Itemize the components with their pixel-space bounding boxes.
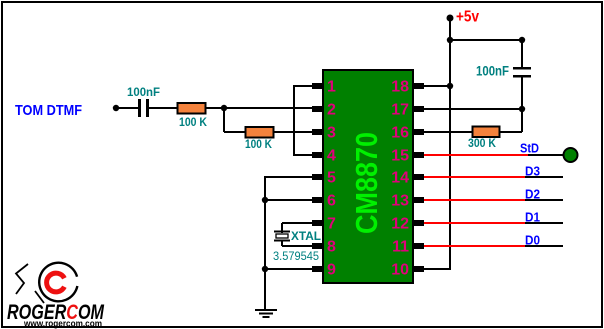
svg-text:D3: D3: [525, 164, 540, 179]
svg-text:9: 9: [327, 262, 336, 279]
svg-text:100nF: 100nF: [127, 85, 160, 99]
svg-text:13: 13: [391, 193, 409, 210]
svg-text:CM8870: CM8870: [349, 132, 384, 234]
svg-text:11: 11: [392, 239, 409, 256]
svg-text:+5v: +5v: [456, 9, 479, 26]
svg-text:TOM DTMF: TOM DTMF: [15, 102, 82, 119]
svg-text:4: 4: [327, 148, 336, 165]
svg-text:StD: StD: [520, 141, 539, 156]
svg-text:17: 17: [391, 102, 409, 119]
svg-text:16: 16: [391, 125, 409, 142]
svg-text:D0: D0: [525, 233, 540, 248]
svg-text:7: 7: [327, 216, 336, 233]
svg-text:10: 10: [391, 262, 409, 279]
svg-text:100 K: 100 K: [245, 137, 272, 151]
svg-text:D1: D1: [525, 210, 540, 225]
svg-text:12: 12: [391, 216, 409, 233]
svg-text:8: 8: [327, 239, 336, 256]
svg-text:5: 5: [327, 170, 336, 187]
svg-text:2: 2: [327, 102, 336, 119]
svg-text:100nF: 100nF: [476, 63, 509, 79]
svg-text:3.579545: 3.579545: [273, 251, 319, 263]
svg-text:6: 6: [327, 193, 336, 210]
svg-text:14: 14: [391, 170, 409, 187]
svg-text:1: 1: [327, 79, 336, 96]
svg-text:15: 15: [391, 148, 409, 165]
svg-text:18: 18: [391, 79, 409, 96]
svg-text:300 K: 300 K: [468, 136, 496, 150]
svg-text:www.rogercom.com: www.rogercom.com: [23, 319, 102, 329]
svg-text:XTAL: XTAL: [291, 229, 321, 243]
svg-text:3: 3: [327, 125, 336, 142]
svg-text:D2: D2: [525, 187, 540, 202]
svg-text:100 K: 100 K: [179, 115, 207, 129]
